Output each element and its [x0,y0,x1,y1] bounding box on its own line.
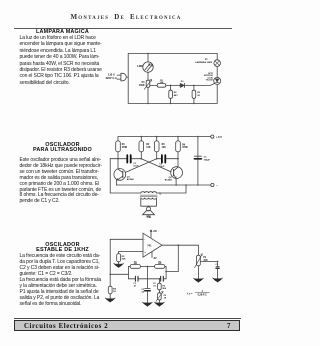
diode D1 [180,83,184,87]
wire Q1 collector lead [117,152,119,169]
wire lamp top lead [216,54,218,60]
wire P1 top lead [197,245,199,255]
wire LDR to P1 [147,72,149,80]
potentiometer P2 [156,292,163,302]
wire twin-T top row right [165,265,166,267]
svg-text:R2: R2 [146,144,150,146]
wire R1 top lead [117,137,119,141]
label R2 4K7 [174,92,179,97]
wire left rail top stub [110,158,118,160]
label C1 [133,283,137,287]
resistor R3 [154,141,159,152]
svg-text:,02: ,02 [141,291,145,293]
node C2-collector tap [177,158,179,160]
resistor R1 [157,84,166,88]
transistor Q1 [114,169,126,181]
wire C2 right lead [166,158,178,160]
pin -6V supply [151,252,153,258]
resistor R5 [158,283,162,290]
wire R3 bottom lead [193,98,195,103]
potentiometer P1 [195,254,203,268]
label R1 470R [122,144,128,149]
svg-text:R4: R4 [113,287,117,290]
svg-text:-: - [144,238,145,242]
svg-text:f.o =: f.o = [187,292,193,295]
capacitor C1 [135,276,138,281]
wire cross-coupling node2 to Q1 base [126,159,157,173]
svg-text:R4: R4 [182,143,186,146]
node twin-T top center [147,266,149,268]
svg-text:10K: 10K [133,263,137,265]
header rule [14,28,232,29]
speaker FTE [143,207,155,215]
label C1 10nF [133,163,139,168]
capacitor C3 electrolytic [194,156,201,159]
wire top rail [128,53,217,55]
pin +6V supply [150,230,152,237]
node feedback tap [178,244,180,246]
wire lamp to SCR [216,66,218,77]
label P1 10K [203,257,208,262]
ground output [213,278,223,282]
label L1 lamp [195,59,213,64]
wire emitter rail [116,184,210,186]
wire positive top rail [118,136,211,138]
label R3 56K [122,256,126,261]
wire twin-T left link [127,266,129,278]
wire LDR top lead [147,54,149,62]
wire C2 left lead [157,158,161,160]
svg-text:741: 741 [147,216,152,219]
wire R2 bottom lead [140,152,142,159]
op-amp U1 [143,233,162,257]
resistor R1 [116,141,121,152]
wire R5 top lead [158,279,160,283]
svg-text:470R: 470R [182,146,188,149]
wire left rail [127,54,129,104]
wire twin-T left feed [110,273,128,275]
wire inverting input [110,238,143,240]
label C2 [153,283,157,287]
label P2 1K [164,295,167,300]
capacitor C2 [162,155,165,162]
label R1 10K [133,261,137,265]
wire twin-T top row left [128,265,130,267]
wire R3 top lead [193,85,195,90]
formula fraction bar [195,291,209,293]
svg-text:TIC106: TIC106 [206,80,214,82]
svg-text:LDR: LDR [137,64,143,68]
svg-text:+: + [144,251,146,254]
resistor R2 [139,141,144,152]
label R2 10K [158,261,162,265]
label R4 470R [182,143,188,149]
ground R4 [105,298,115,302]
svg-text:+ 6 V: + 6 V [216,135,222,139]
label R1 10K [159,80,163,84]
wire feedback drop [166,245,178,271]
transformer T1 [140,192,157,206]
svg-text:4K7: 4K7 [174,94,179,97]
resistor R3 [192,90,196,98]
footer title [24,323,108,330]
wire bottom row left [128,278,135,280]
svg-text:1K: 1K [164,298,167,300]
svg-text:100µF: 100µF [204,159,211,161]
wire Q2 collector lead [177,152,179,167]
svg-text:D1: D1 [181,81,185,83]
wire P1 to bottom rail [147,87,149,103]
label P1 100K [139,81,145,87]
label Q2 BC548 [165,177,173,182]
wire R3 top lead [156,137,158,141]
wire P1 bottom lead [197,266,199,279]
label C3 ,02 [141,289,145,294]
node R3 top [156,136,158,138]
svg-text:100K: 100K [139,84,145,87]
wire twin-T top row mid [140,265,154,267]
resistor R2 [169,90,173,98]
section 1 text [20,30,106,86]
wire Q2 emitter lead [175,179,177,186]
wire C4 to ground [217,269,219,279]
node1 R2-C1 junction [141,158,143,160]
node twin-T left tap [109,274,111,276]
node R3 tap [193,85,195,87]
svg-text:12K: 12K [162,147,167,149]
node transformer riser [185,184,187,186]
transistor Q2 [171,167,183,179]
svg-text:5K6: 5K6 [162,288,167,290]
resistor R3 [117,254,121,262]
svg-text:10nF: 10nF [159,166,165,168]
node C1 left tap [117,158,119,160]
node R4 top [177,136,179,138]
node R3 bottom [193,103,195,105]
label R2 12K [146,144,151,149]
node supply top [197,136,199,138]
svg-text:-6V: -6V [153,258,157,260]
wire twin-T right link [165,266,167,278]
section 3 text [20,243,106,308]
svg-text:,01: ,01 [133,285,137,287]
label R5 5K6 [162,285,167,290]
wire bottom row right [164,278,166,280]
wire R3 bottom lead [156,152,158,159]
label R4 1K [113,287,117,293]
wire bottom rail [128,102,217,104]
node R2 tap [170,85,172,87]
node feedback to twin-T right [165,271,167,273]
LDR photoresistor [143,62,153,72]
ground R3 [114,263,124,267]
footer page number [227,323,231,330]
wire P1 wiper output [200,260,217,262]
capacitor C2 [161,276,164,281]
node P1 bottom [147,103,149,105]
svg-text:10K: 10K [158,263,162,265]
svg-text:P1: P1 [203,257,207,259]
node R5 tap [159,278,161,280]
svg-text:R1: R1 [122,144,126,146]
label Q1 BC548 [127,176,135,181]
wire transformer left lead [110,192,141,194]
label R3 12K [162,144,167,149]
label SCR MCR106 TIC106 [204,73,213,82]
wire left feedback rail [109,239,111,286]
wire R2 bottom lead [170,98,172,103]
svg-text:BC548: BC548 [165,179,173,182]
wire P1 wiper to R1 [150,84,157,86]
svg-text:R3: R3 [197,92,201,94]
wire R5 to P2 [158,290,160,293]
svg-text:1K: 1K [113,291,116,293]
label 110V 220V CA [106,73,118,80]
wire C1 right lead to node1 [131,158,141,160]
wire bottom row mid [139,278,161,280]
section 2 text [20,143,106,205]
svg-text:C3: C3 [204,157,208,159]
wire R3 bottom lead [118,262,120,264]
svg-text:12K: 12K [146,147,151,149]
formula fo [187,290,207,297]
wire C1 left lead [118,158,127,160]
node output [217,261,219,263]
page header [0,13,252,21]
schematic 1: magic lamp [100,42,248,108]
schematic 3: 1kHz stable oscillator [100,213,232,310]
wire output to C4 [217,261,219,266]
wire transformer right lead [156,185,186,193]
svg-text:56K: 56K [122,259,126,261]
node top-LDR junction [147,53,149,55]
svg-text:+6V: +6V [153,231,158,233]
wire twin-T center drop [146,266,148,288]
node R2 top [141,136,143,138]
wire SCR cathode to bottom rail [216,84,218,103]
wire R2 top lead [170,85,172,90]
node2 R3-C2 junction [156,158,158,160]
wire R1 to D1 [166,84,180,86]
node supply bottom [197,184,199,186]
node R2 bottom [170,103,172,105]
wire R4 top lead [177,137,179,141]
wire left rail [109,159,111,193]
svg-text:10K: 10K [159,82,163,84]
capacitor C3 [145,289,151,291]
svg-text:,01: ,01 [153,285,157,287]
lamp L1 [214,60,221,67]
resistor R1 [130,265,140,269]
wire supply rail right [197,137,199,185]
svg-text:R3: R3 [162,144,166,146]
label C2 10nF [159,164,165,169]
svg-text:LAMPARA 100W: LAMPARA 100W [195,61,213,64]
ground C3 [143,302,153,306]
wire R2 top lead [140,137,142,141]
resistor R4 [108,286,112,294]
svg-text:BC548: BC548 [127,178,135,181]
wire C3 to ground [146,291,148,302]
wire Q1 emitter lead [115,180,117,185]
svg-text:R2: R2 [174,92,178,94]
AC plug CH1 [117,73,128,81]
terminal minus [211,183,214,186]
wire D1 to SCR gate [185,84,215,86]
node Q2 emitter rail [175,184,177,186]
schematic 2: ultrasound oscillator [105,125,232,220]
potentiometer P1 [144,80,151,90]
svg-text:L1: L1 [205,59,208,61]
terminal +6V [211,135,214,138]
resistor R2 [155,265,165,269]
capacitor C4 [216,267,219,269]
svg-text:6,28 R C: 6,28 R C [198,295,208,297]
footer bar [14,320,240,331]
ground P2 [155,302,165,306]
thyristor SCR [214,77,221,84]
ground P1 [194,278,204,282]
wire R4 bottom lead [109,294,111,298]
label C3 100uF [204,157,211,162]
wire op-amp output [162,244,198,246]
svg-text:220V C.A.: 220V C.A. [106,76,118,80]
svg-text:−: − [216,184,218,187]
svg-text:470R: 470R [122,146,128,149]
svg-text:1K: 1K [197,95,200,97]
wire cross-coupling node1 to Q2 base [141,159,171,172]
label R3 1K [197,92,201,97]
wire non-inverting input [119,251,143,253]
footer rule [14,318,241,319]
capacitor C1 [127,155,130,162]
svg-text:T1: T1 [159,194,162,196]
svg-text:R3: R3 [122,256,126,258]
wire P2 bottom lead [158,300,160,302]
svg-text:741: 741 [147,244,152,248]
resistor R4 [176,141,181,152]
